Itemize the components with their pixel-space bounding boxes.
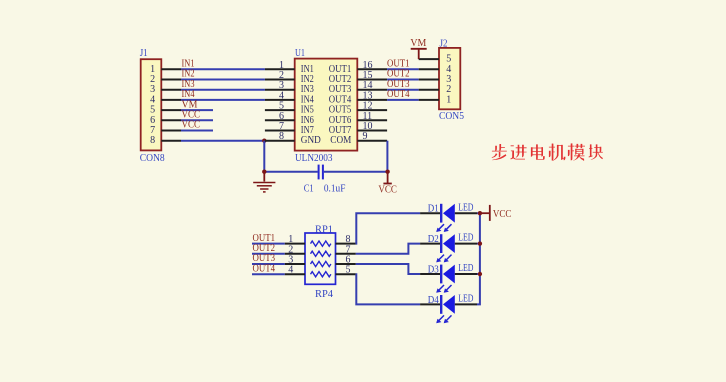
connector J2 body (CON5) bbox=[439, 48, 460, 109]
svg-text:COM: COM bbox=[330, 135, 351, 146]
pin 3 stub of J1 bbox=[161, 89, 181, 91]
net label VM bbox=[182, 99, 198, 110]
svg-text:J1: J1 bbox=[140, 48, 148, 59]
svg-text:RP1: RP1 bbox=[315, 224, 333, 235]
pin number 6 of J1 bbox=[150, 115, 155, 126]
pin 13 stub of U1 bbox=[357, 99, 387, 101]
wire net OUT1 (top) bbox=[387, 68, 419, 70]
pin number 3 of J2 bbox=[446, 74, 451, 85]
pin number 3 of RP1 bbox=[288, 255, 293, 266]
power port VM bbox=[410, 38, 426, 59]
wire junction down to capacitor rail bbox=[263, 141, 265, 172]
svg-text:CON5: CON5 bbox=[439, 111, 464, 122]
label 0.1uF value bbox=[324, 183, 346, 194]
pin number 5 of RP1 bbox=[346, 265, 351, 276]
pin number 16 of U1 bbox=[363, 60, 373, 71]
label D1 designator bbox=[428, 204, 439, 215]
svg-text:8: 8 bbox=[279, 131, 284, 142]
label D2 designator bbox=[428, 234, 439, 245]
label ULN2003 value bbox=[295, 153, 333, 164]
pin number 14 of U1 bbox=[363, 80, 373, 91]
pin name COM of U1 bbox=[330, 135, 351, 146]
op-amp U1 body (ULN2003) bbox=[295, 59, 358, 151]
wire net OUT2 (top) bbox=[387, 79, 419, 81]
wire LED anode rail vertical bbox=[477, 213, 480, 304]
pin name IN2 of U1 bbox=[301, 74, 314, 85]
pin number 4 of J2 bbox=[446, 64, 451, 75]
pin name OUT4 of U1 bbox=[329, 94, 352, 105]
pin 5 stub of J2 bbox=[419, 58, 439, 60]
pin 7 stub of J1 bbox=[161, 130, 181, 132]
pin number 7 of U1 bbox=[279, 121, 284, 132]
resistor element 4 of RP1 bbox=[311, 272, 331, 277]
net label VCC (pin 7) bbox=[182, 120, 201, 131]
net label OUT4 (RP1 side) bbox=[253, 263, 276, 274]
pin number 1 of RP1 bbox=[288, 234, 293, 245]
junction D1 rail bbox=[478, 211, 482, 215]
power port VCC (right) bbox=[480, 205, 512, 221]
pin name IN7 of U1 bbox=[301, 125, 314, 136]
net label OUT4 (top) bbox=[387, 89, 410, 100]
junction at ground rail bbox=[262, 170, 266, 174]
pin number 10 of U1 bbox=[363, 121, 373, 132]
pin 8 stub of RP1 bbox=[336, 243, 356, 245]
pin 1 stub of U1 bbox=[265, 68, 295, 70]
svg-text:VCC: VCC bbox=[378, 185, 397, 196]
pin 16 stub of U1 bbox=[357, 68, 387, 70]
pin number 2 of J2 bbox=[446, 84, 451, 95]
pin 2 stub of RP1 bbox=[285, 253, 305, 255]
pin number 5 of U1 bbox=[279, 101, 284, 112]
pin 7 stub of U1 bbox=[265, 130, 295, 132]
pin name IN3 of U1 bbox=[301, 84, 314, 95]
net label OUT2 (top) bbox=[387, 69, 410, 80]
svg-text:CON8: CON8 bbox=[140, 153, 165, 164]
wire D2 anode to rail bbox=[477, 243, 480, 245]
pin number 7 of RP1 bbox=[346, 244, 351, 255]
pin 1 stub of J1 bbox=[161, 68, 181, 70]
pin number 1 of U1 bbox=[279, 60, 284, 71]
pin number 3 of J1 bbox=[150, 84, 155, 95]
pin 3 stub of U1 bbox=[265, 89, 295, 91]
pin number 1 of J1 bbox=[150, 64, 155, 75]
pin name OUT3 of U1 bbox=[329, 84, 352, 95]
svg-text:LED: LED bbox=[458, 233, 473, 244]
pin 4 stub of J2 bbox=[419, 68, 439, 70]
svg-text:9: 9 bbox=[363, 131, 368, 142]
svg-text:LED: LED bbox=[458, 263, 473, 274]
label CON8 value bbox=[140, 153, 165, 164]
pin 12 stub of U1 bbox=[357, 109, 387, 111]
pin 3 stub of RP1 bbox=[285, 263, 305, 265]
pin number 8 of J1 bbox=[150, 135, 155, 146]
wire GND-junction to capacitor C1 bbox=[264, 171, 317, 173]
wire net IN1 bbox=[181, 68, 265, 70]
svg-text:0.1uF: 0.1uF bbox=[324, 183, 346, 194]
pin number 2 of RP1 bbox=[288, 244, 293, 255]
svg-text:D3: D3 bbox=[428, 265, 439, 276]
net label IN1 bbox=[182, 59, 195, 70]
power port VCC (bottom) bbox=[378, 172, 397, 196]
wire net VM stub bbox=[181, 109, 213, 111]
wire RP1 pin 7 to D2 bbox=[356, 244, 420, 254]
junction on GND wire bbox=[262, 139, 266, 143]
wire net IN3 bbox=[181, 89, 265, 91]
svg-text:VCC: VCC bbox=[182, 120, 201, 131]
pin number 4 of RP1 bbox=[288, 265, 293, 276]
wire capacitor C1 to VCC junction bbox=[324, 171, 388, 173]
pin 6 stub of U1 bbox=[265, 119, 295, 121]
net label OUT3 (RP1 side) bbox=[253, 253, 276, 264]
resistor element 1 of RP1 bbox=[311, 241, 331, 246]
net label OUT2 (RP1 side) bbox=[253, 243, 276, 254]
wire net OUT3 (top) bbox=[387, 89, 419, 91]
net label VCC (pin 6) bbox=[182, 110, 201, 121]
label LED value D2 bbox=[458, 233, 473, 244]
label RP4 value bbox=[315, 289, 333, 300]
pin 1 stub of RP1 bbox=[285, 243, 305, 245]
pin number 4 of U1 bbox=[279, 90, 284, 101]
svg-text:D4: D4 bbox=[428, 295, 439, 306]
pin 4 stub of U1 bbox=[265, 99, 295, 101]
pin number 11 of U1 bbox=[363, 111, 373, 122]
pin number 15 of U1 bbox=[363, 70, 373, 81]
pin name OUT6 of U1 bbox=[329, 115, 352, 126]
wire COM pin 9 down to VCC rail bbox=[386, 141, 388, 172]
pin number 2 of U1 bbox=[279, 70, 284, 81]
wire RP1 pin 6 to D3 bbox=[356, 264, 420, 274]
svg-text:5: 5 bbox=[346, 265, 351, 276]
wire D3 anode to rail bbox=[477, 273, 480, 275]
pin 1 stub of J2 bbox=[419, 99, 439, 101]
svg-text:U1: U1 bbox=[295, 48, 305, 59]
LED D1 bbox=[420, 204, 477, 232]
pin 14 stub of U1 bbox=[357, 89, 387, 91]
pin 3 stub of J2 bbox=[419, 79, 439, 81]
pin number 2 of J1 bbox=[150, 74, 155, 85]
label U1 designator bbox=[295, 48, 305, 59]
pin name OUT1 of U1 bbox=[329, 64, 352, 75]
pin name OUT2 of U1 bbox=[329, 74, 352, 85]
label CON5 value bbox=[439, 111, 464, 122]
wire net OUT4 (top) bbox=[387, 99, 419, 101]
pin 11 stub of U1 bbox=[357, 119, 387, 121]
wire RP1 pin 8 to D1 bbox=[356, 213, 420, 243]
pin 4 stub of RP1 bbox=[285, 273, 305, 275]
pin name IN5 of U1 bbox=[301, 105, 314, 116]
wire RP1 pin 5 to D4 bbox=[356, 274, 420, 304]
svg-text:OUT4: OUT4 bbox=[387, 89, 410, 100]
net label OUT3 (top) bbox=[387, 79, 410, 90]
label D4 designator bbox=[428, 295, 439, 306]
resistor element 2 of RP1 bbox=[311, 251, 331, 256]
resistor pack RP1 body bbox=[305, 233, 336, 284]
pin 5 stub of U1 bbox=[265, 109, 295, 111]
pin 8 stub of U1 bbox=[265, 140, 295, 142]
pin name IN4 of U1 bbox=[301, 94, 314, 105]
pin 2 stub of U1 bbox=[265, 79, 295, 81]
label RP1 designator bbox=[315, 224, 333, 235]
junction at VCC rail bbox=[385, 170, 389, 174]
junction D2 rail bbox=[478, 241, 482, 245]
pin number 12 of U1 bbox=[363, 101, 373, 112]
pin number 6 of U1 bbox=[279, 111, 284, 122]
wire net OUT1 (to RP1) bbox=[252, 243, 285, 245]
wire net VCC stub (pin 7) bbox=[181, 130, 213, 132]
pin name OUT7 of U1 bbox=[329, 125, 352, 136]
connector J1 body (CON8) bbox=[141, 59, 162, 150]
pin name IN1 of U1 bbox=[301, 64, 314, 75]
pin number 6 of RP1 bbox=[346, 255, 351, 266]
net label IN2 bbox=[182, 69, 195, 80]
pin number 1 of J2 bbox=[446, 94, 451, 105]
pin 2 stub of J2 bbox=[419, 89, 439, 91]
label J2 designator bbox=[440, 38, 448, 49]
junction D3 rail bbox=[478, 272, 482, 276]
pin number 5 of J1 bbox=[150, 105, 155, 116]
label J1 designator bbox=[140, 48, 148, 59]
net label IN4 bbox=[182, 89, 195, 100]
wire net OUT4 (to RP1) bbox=[252, 273, 285, 275]
wire net OUT2 (to RP1) bbox=[252, 253, 285, 255]
pin 6 stub of J1 bbox=[161, 119, 181, 121]
resistor element 3 of RP1 bbox=[311, 261, 331, 266]
pin 8 stub of J1 bbox=[161, 140, 181, 142]
pin name OUT5 of U1 bbox=[329, 105, 352, 116]
LED D2 bbox=[420, 234, 477, 262]
wire net IN2 bbox=[181, 79, 265, 81]
svg-text:D1: D1 bbox=[428, 204, 439, 215]
wire net VCC stub (pin 6) bbox=[181, 119, 213, 121]
pin 5 stub of RP1 bbox=[336, 273, 356, 275]
label LED value D3 bbox=[458, 263, 473, 274]
capacitor C1 bbox=[319, 165, 323, 180]
title text 步进电机模块 bbox=[492, 143, 603, 161]
svg-text:4: 4 bbox=[288, 265, 293, 276]
label LED value D4 bbox=[458, 294, 473, 305]
wire net IN4 bbox=[181, 99, 265, 101]
svg-text:OUT4: OUT4 bbox=[253, 263, 276, 274]
wire net OUT3 (to RP1) bbox=[252, 263, 285, 265]
svg-text:1: 1 bbox=[446, 94, 451, 105]
svg-text:8: 8 bbox=[150, 135, 155, 146]
pin 6 stub of RP1 bbox=[336, 263, 356, 265]
svg-text:VM: VM bbox=[410, 38, 426, 49]
label D3 designator bbox=[428, 265, 439, 276]
pin name IN6 of U1 bbox=[301, 115, 314, 126]
svg-text:GND: GND bbox=[301, 135, 321, 146]
svg-text:LED: LED bbox=[458, 202, 473, 213]
LED D3 bbox=[420, 265, 477, 293]
pin number 13 of U1 bbox=[363, 90, 373, 101]
pin 2 stub of J1 bbox=[161, 79, 181, 81]
svg-text:D2: D2 bbox=[428, 234, 439, 245]
label LED value D1 bbox=[458, 202, 473, 213]
pin 15 stub of U1 bbox=[357, 79, 387, 81]
svg-text:C1: C1 bbox=[304, 183, 314, 194]
pin number 4 of J1 bbox=[150, 94, 155, 105]
net label OUT1 (RP1 side) bbox=[253, 233, 276, 244]
label C1 designator bbox=[304, 183, 314, 194]
svg-text:LED: LED bbox=[458, 294, 473, 305]
wire GND net from J1 pin 8 to U1 bbox=[181, 140, 265, 142]
svg-text:VCC: VCC bbox=[493, 209, 512, 220]
pin 7 stub of RP1 bbox=[336, 253, 356, 255]
pin 10 stub of U1 bbox=[357, 130, 387, 132]
LED D4 bbox=[420, 295, 477, 323]
svg-text:J2: J2 bbox=[440, 38, 448, 49]
pin number 9 of U1 bbox=[363, 131, 368, 142]
net label OUT1 (top) bbox=[387, 59, 410, 70]
pin number 5 of J2 bbox=[446, 54, 451, 65]
pin 4 stub of J1 bbox=[161, 99, 181, 101]
pin number 7 of J1 bbox=[150, 125, 155, 136]
pin number 8 of U1 bbox=[279, 131, 284, 142]
pin number 3 of U1 bbox=[279, 80, 284, 91]
net label IN3 bbox=[182, 79, 195, 90]
pin 9 stub of U1 bbox=[357, 140, 387, 142]
pin number 8 of RP1 bbox=[346, 234, 351, 245]
svg-text:ULN2003: ULN2003 bbox=[295, 153, 333, 164]
svg-text:RP4: RP4 bbox=[315, 289, 333, 300]
pin 5 stub of J1 bbox=[161, 109, 181, 111]
pin name GND of U1 bbox=[301, 135, 321, 146]
ground bbox=[253, 172, 275, 192]
